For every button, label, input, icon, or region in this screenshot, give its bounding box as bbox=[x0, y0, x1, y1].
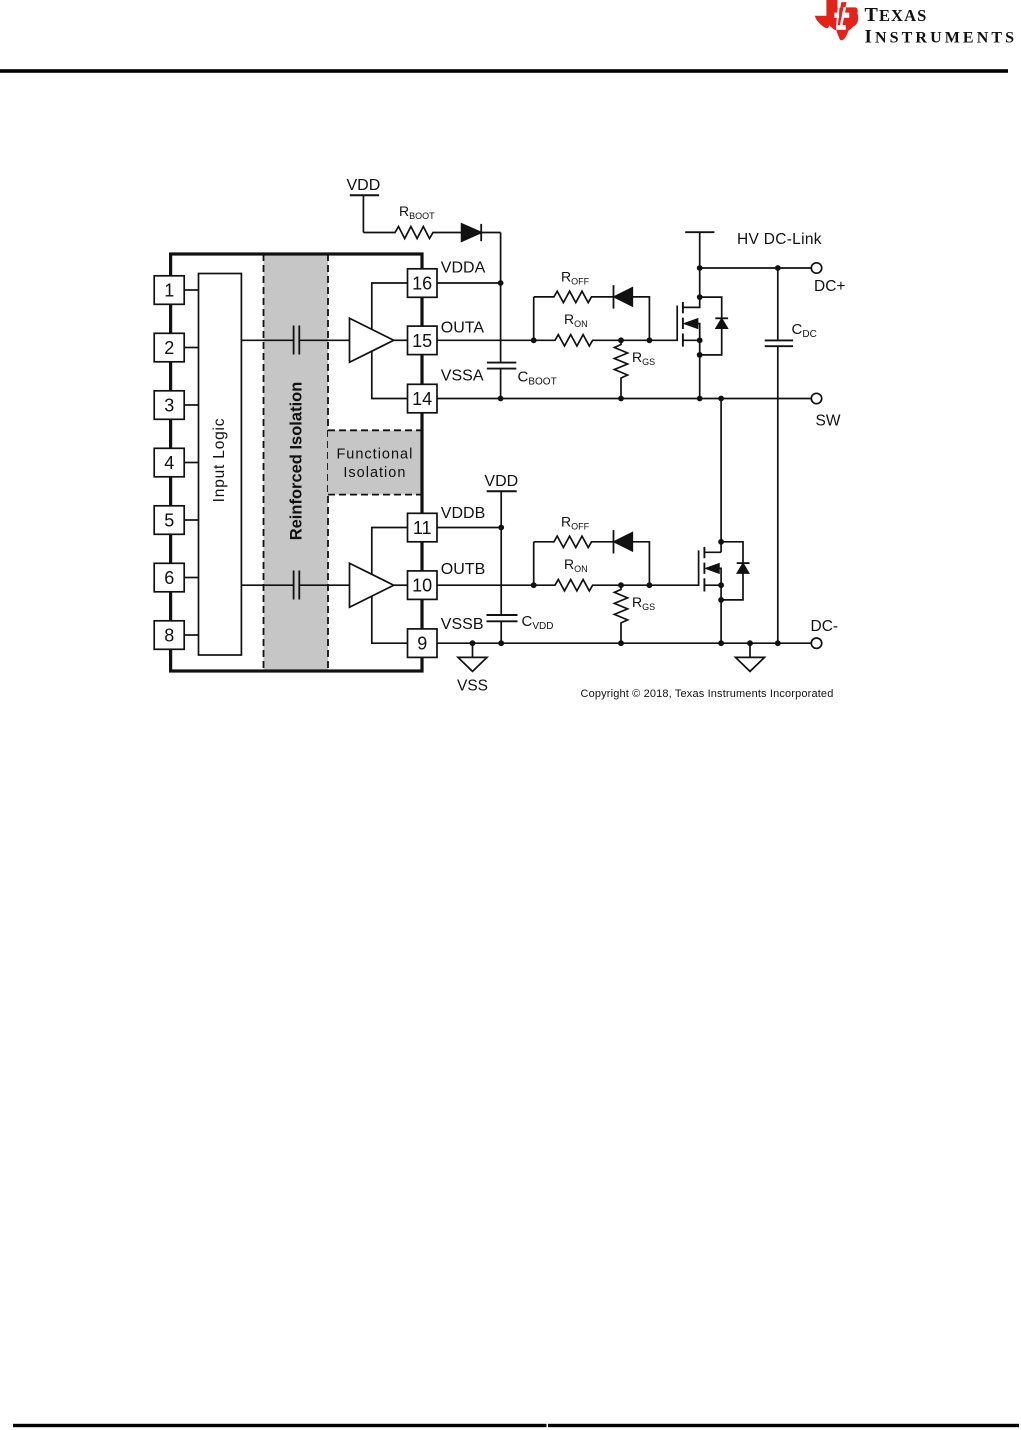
MOSFET Q1 body diode bbox=[700, 297, 722, 318]
top horizontal rule bbox=[0, 69, 1008, 73]
junction dots bbox=[470, 265, 781, 646]
SW branch to Q2 drain bbox=[720, 399, 722, 553]
resistor RGS A bbox=[614, 340, 627, 399]
node DC- Q2 source bbox=[718, 640, 724, 646]
wire pin11 VDDB bbox=[437, 527, 501, 529]
terminal DC- bbox=[811, 638, 821, 648]
diode DBOOT bbox=[462, 224, 482, 241]
node OUTB left bbox=[531, 582, 537, 588]
svg-text:RGS: RGS bbox=[632, 594, 655, 612]
pin numbers bbox=[164, 274, 432, 654]
svg-text:HV DC-Link: HV DC-Link bbox=[737, 231, 822, 248]
pin box 6 bbox=[154, 563, 184, 592]
node VDDB bbox=[498, 525, 504, 531]
pin box 9 bbox=[408, 629, 438, 658]
svg-text:6: 6 bbox=[164, 568, 174, 588]
node gate A bbox=[647, 337, 653, 343]
MOSFET Q1 body arrow bbox=[685, 319, 698, 328]
pin box 14 bbox=[408, 384, 438, 413]
node DC- CVDD bbox=[498, 640, 504, 646]
input logic box bbox=[199, 274, 242, 656]
svg-text:8: 8 bbox=[164, 626, 174, 646]
driver buffer A bbox=[350, 318, 394, 362]
VDD supply B bbox=[487, 490, 517, 492]
svg-text:Input Logic: Input Logic bbox=[211, 418, 228, 503]
wire pin16 VDDA bbox=[437, 282, 501, 284]
VDD supply A bbox=[350, 194, 379, 196]
DC+ rail bbox=[700, 267, 812, 269]
bracket wires pin11/pin9 around buffer B bbox=[372, 528, 408, 644]
svg-text:5: 5 bbox=[164, 511, 174, 531]
node Q1 source bbox=[697, 337, 703, 343]
svg-text:1: 1 bbox=[164, 281, 174, 301]
svg-text:VDD: VDD bbox=[484, 473, 518, 490]
VDDA rail bbox=[500, 233, 502, 362]
svg-text:Copyright © 2018, Texas Instru: Copyright © 2018, Texas Instruments Inco… bbox=[581, 688, 834, 700]
capacitor CVDD bbox=[487, 614, 518, 616]
MOSFET Q2 body arrow bbox=[706, 564, 719, 573]
wire input logic to buffer A bbox=[241, 339, 293, 341]
svg-text:CVDD: CVDD bbox=[522, 613, 554, 632]
svg-text:INSTRUMENTS: INSTRUMENTS bbox=[865, 27, 1018, 48]
node Q1 drain bbox=[697, 294, 703, 300]
svg-text:16: 16 bbox=[412, 274, 432, 294]
MOSFET Q2 drain stub bbox=[704, 551, 721, 553]
node VDDA bbox=[498, 280, 504, 286]
isolation capacitor B bbox=[293, 571, 295, 600]
terminal SW bbox=[811, 393, 821, 403]
driver buffer B bbox=[350, 563, 394, 607]
MOSFET Q2 source stub bbox=[704, 584, 721, 586]
MOSFET Q1 source stub bbox=[683, 339, 700, 341]
node gate B bbox=[647, 582, 653, 588]
svg-text:CBOOT: CBOOT bbox=[518, 369, 557, 388]
bottom horizontal rule bbox=[13, 1424, 547, 1427]
bracket wires pin16/pin14 around buffer A bbox=[372, 283, 408, 399]
resistor RON A bbox=[534, 335, 650, 346]
resistor RGS B bbox=[614, 585, 627, 644]
diode DOFF B bbox=[613, 530, 615, 553]
isolation capacitor A bbox=[293, 326, 295, 355]
svg-text:4: 4 bbox=[164, 453, 174, 473]
svg-text:OUTA: OUTA bbox=[441, 319, 485, 336]
node DC- CDC bbox=[775, 640, 781, 646]
pin box 1 bbox=[154, 276, 184, 305]
wire pin10 OUTB bbox=[437, 584, 534, 586]
svg-text:TEXAS: TEXAS bbox=[865, 4, 928, 26]
svg-text:RON: RON bbox=[564, 556, 588, 574]
MOSFET Q1 channel dashes bbox=[682, 302, 684, 313]
svg-text:Functional: Functional bbox=[336, 447, 413, 463]
svg-text:ROFF: ROFF bbox=[561, 514, 590, 532]
node Q1 diode anode bbox=[697, 352, 703, 358]
node DC- RGS B bbox=[618, 640, 624, 646]
pin box 10 bbox=[408, 571, 438, 600]
svg-text:SW: SW bbox=[816, 412, 841, 429]
svg-text:VSS: VSS bbox=[457, 678, 488, 695]
pin stub wires pins 1-8 bbox=[184, 289, 198, 291]
pin box 16 bbox=[408, 269, 438, 298]
svg-text:Isolation: Isolation bbox=[343, 465, 406, 481]
svg-text:OUTB: OUTB bbox=[441, 561, 485, 578]
resistor RON B bbox=[534, 580, 650, 591]
capacitor CBOOT bbox=[487, 362, 516, 364]
pin box 11 bbox=[408, 513, 438, 542]
svg-text:VSSB: VSSB bbox=[441, 616, 484, 633]
wire pin9 VSSB / DC- rail bbox=[437, 642, 811, 644]
pin box 5 bbox=[154, 506, 184, 535]
svg-text:DC-: DC- bbox=[811, 618, 839, 635]
svg-text:RBOOT: RBOOT bbox=[399, 203, 435, 221]
node RGS B top bbox=[618, 582, 624, 588]
MOSFET Q1 drain stub bbox=[683, 232, 700, 307]
svg-text:2: 2 bbox=[164, 338, 174, 358]
resistor ROFF B branch bbox=[533, 542, 535, 585]
svg-text:RGS: RGS bbox=[632, 349, 655, 367]
node SW Q1 source bbox=[697, 396, 703, 402]
svg-text:RON: RON bbox=[564, 311, 588, 329]
ground VSS symbol bbox=[472, 643, 474, 657]
pin box 15 bbox=[408, 326, 438, 355]
svg-text:14: 14 bbox=[412, 389, 432, 409]
node Q2 drain bbox=[718, 539, 724, 545]
svg-text:VDDB: VDDB bbox=[441, 505, 485, 522]
node VSSA CBOOT bbox=[498, 396, 504, 402]
svg-text:DC+: DC+ bbox=[814, 278, 845, 295]
svg-text:VDD: VDD bbox=[347, 177, 381, 194]
MOSFET Q2 channel dashes bbox=[703, 547, 705, 558]
svg-text:ROFF: ROFF bbox=[561, 269, 590, 287]
node OUTA left bbox=[531, 337, 537, 343]
capacitor CDC bbox=[777, 268, 779, 340]
resistor RBOOT bbox=[363, 227, 461, 239]
node DC+ CDC bbox=[775, 265, 781, 271]
MOSFET Q2 gate bar bbox=[649, 550, 698, 585]
node SW Q2 drain bbox=[718, 396, 724, 402]
terminal DC+ bbox=[811, 263, 821, 273]
MOSFET Q2 body diode bbox=[721, 542, 743, 563]
TI logo red Texas bug bbox=[815, 0, 859, 40]
wire input logic to buffer B bbox=[241, 584, 293, 586]
node Q2 diode anode bbox=[718, 597, 724, 603]
HV DC-Link supply bar bbox=[685, 231, 714, 233]
wire pin14 VSSA / SW rail bbox=[437, 398, 811, 400]
pin box 3 bbox=[154, 391, 184, 420]
pin box 8 bbox=[154, 621, 184, 650]
diode DOFF A bbox=[613, 285, 615, 308]
ground DC- symbol bbox=[749, 643, 751, 657]
pin box 4 bbox=[154, 448, 184, 477]
node DC+ drain bbox=[697, 265, 703, 271]
svg-text:Reinforced Isolation: Reinforced Isolation bbox=[288, 382, 306, 541]
node VSSA RGS bbox=[618, 396, 624, 402]
svg-text:VSSA: VSSA bbox=[441, 367, 484, 384]
wire pin15 OUTA bbox=[437, 339, 534, 341]
node Q2 source bbox=[718, 582, 724, 588]
svg-text:9: 9 bbox=[417, 634, 427, 654]
MOSFET Q1 gate bar bbox=[649, 306, 677, 341]
resistor ROFF A branch bbox=[533, 297, 535, 340]
node DC- ground bbox=[747, 640, 753, 646]
reinforced isolation gray band bbox=[264, 254, 329, 671]
svg-text:10: 10 bbox=[412, 576, 432, 596]
svg-text:15: 15 bbox=[412, 331, 432, 351]
functional isolation box bbox=[328, 430, 422, 494]
svg-text:3: 3 bbox=[164, 396, 174, 416]
svg-text:11: 11 bbox=[413, 518, 432, 538]
node DC- VSS bbox=[470, 640, 476, 646]
pin box 2 bbox=[154, 333, 184, 362]
IC outline box bbox=[171, 254, 422, 671]
svg-text:VDDA: VDDA bbox=[441, 260, 486, 277]
svg-text:CDC: CDC bbox=[792, 321, 817, 340]
node RGS A top bbox=[618, 337, 624, 343]
